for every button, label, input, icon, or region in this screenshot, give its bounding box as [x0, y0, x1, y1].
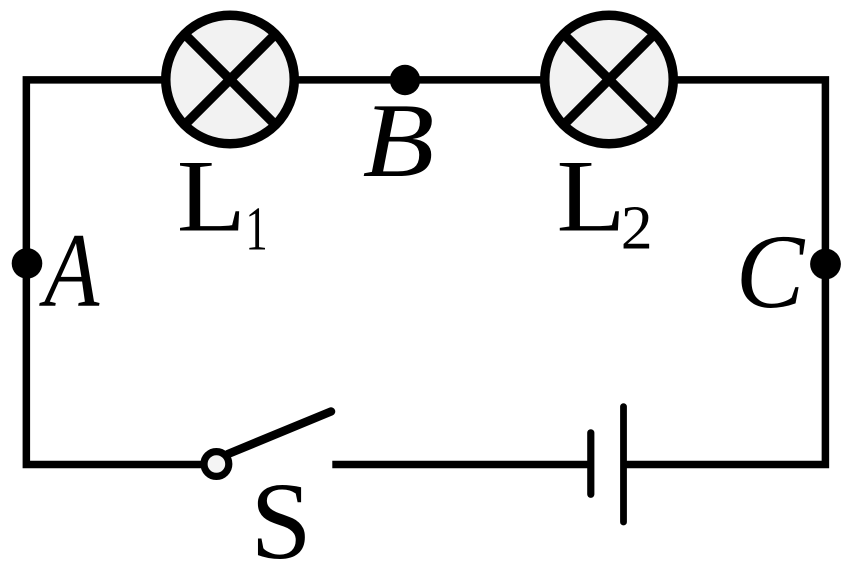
svg-text:C: C — [736, 212, 806, 330]
wire left loop (top wire, left wire, bottom-left segment) — [26, 80, 405, 465]
node C — [810, 249, 841, 280]
switch S lever — [228, 412, 331, 455]
svg-text:L: L — [557, 140, 626, 253]
switch S pivot — [204, 452, 229, 477]
lamp L1 — [166, 15, 295, 144]
svg-text:L: L — [177, 140, 246, 253]
wire switch-to-battery segment — [332, 461, 589, 469]
battery positive plate (long) — [620, 407, 627, 522]
wire right loop (top wire, right wire, bottom-right segment) — [405, 80, 825, 465]
lamp L2 — [545, 15, 674, 144]
svg-text:B: B — [363, 82, 435, 199]
svg-text:A: A — [39, 212, 100, 329]
node B — [390, 65, 420, 95]
node A — [12, 248, 43, 279]
battery negative plate (short) — [587, 433, 594, 495]
svg-text:1: 1 — [245, 195, 267, 264]
svg-text:2: 2 — [621, 193, 653, 262]
svg-text:S: S — [251, 460, 312, 567]
